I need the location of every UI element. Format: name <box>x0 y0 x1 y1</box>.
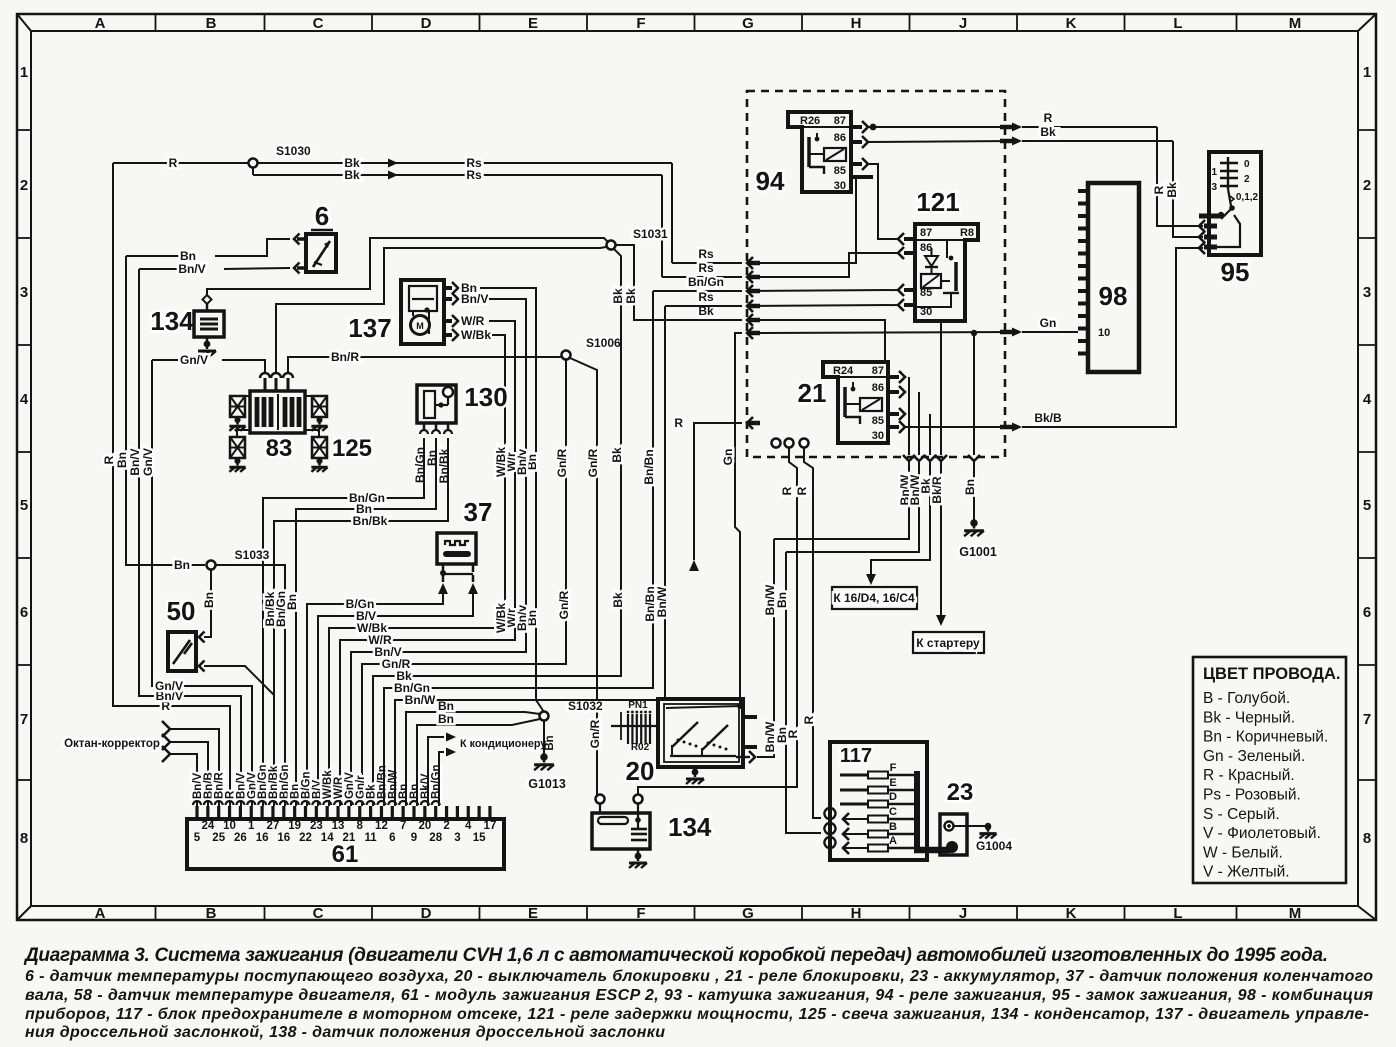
svg-text:G: G <box>742 905 754 922</box>
svg-text:4: 4 <box>465 820 472 832</box>
svg-text:0,1,2: 0,1,2 <box>1236 192 1259 203</box>
svg-text:B: B <box>889 821 897 833</box>
svg-text:E: E <box>889 777 896 789</box>
svg-text:87: 87 <box>834 115 846 127</box>
relay 21 pin 85 <box>888 408 905 420</box>
svg-text:R: R <box>780 486 794 495</box>
wire Bn/Gn from S1033 to pin9 <box>216 565 288 806</box>
wire Bn/W vertical to pin19 <box>395 306 669 806</box>
svg-text:C: C <box>313 15 324 32</box>
wire R left vertical <box>102 163 230 806</box>
svg-text:Ps - Розовый.: Ps - Розовый. <box>1203 787 1301 804</box>
svg-text:2: 2 <box>20 177 28 194</box>
svg-text:Gn: Gn <box>721 449 735 466</box>
svg-text:E: E <box>528 15 538 32</box>
svg-text:6 - датчик температуры поступа: 6 - датчик температуры поступающего возд… <box>25 968 1373 985</box>
svg-text:Bn: Bn <box>438 712 454 726</box>
wire Bn/V left vertical <box>128 269 241 806</box>
svg-text:85: 85 <box>872 415 884 427</box>
svg-text:A: A <box>95 905 106 922</box>
switch 20 right stubs <box>743 717 757 747</box>
svg-text:B: B <box>206 905 217 922</box>
svg-text:8: 8 <box>20 830 28 847</box>
wire Bk/Rs upper <box>258 156 760 269</box>
svg-text:3: 3 <box>1211 182 1217 193</box>
svg-text:86: 86 <box>920 242 932 254</box>
svg-text:6: 6 <box>20 604 28 621</box>
svg-text:W/Bk: W/Bk <box>357 621 387 635</box>
svg-text:R: R <box>674 416 683 430</box>
svg-text:3: 3 <box>454 832 460 844</box>
svg-text:R: R <box>1044 111 1053 125</box>
connector circles under relay box <box>772 439 809 448</box>
svg-text:Bn/R: Bn/R <box>331 350 359 364</box>
node S1031 <box>607 227 669 250</box>
svg-text:R: R <box>802 715 816 724</box>
wire from sensor 50 lower pin <box>199 661 274 696</box>
wire Bn from 130 pin2 <box>285 444 436 806</box>
svg-text:Gn/R: Gn/R <box>557 590 571 619</box>
svg-text:R - Красный.: R - Красный. <box>1203 767 1295 784</box>
svg-text:A: A <box>889 835 897 847</box>
svg-text:Bn: Bn <box>775 727 789 743</box>
svg-text:R26: R26 <box>800 115 820 127</box>
svg-text:Bn/V: Bn/V <box>128 448 142 475</box>
svg-text:125: 125 <box>332 435 372 462</box>
wire B/V from 37 <box>318 592 473 806</box>
wire R exit from relay 94 <box>868 111 1157 132</box>
svg-text:S1032: S1032 <box>568 699 603 713</box>
svg-text:Октан-корректор: Октан-корректор <box>64 738 160 750</box>
137 pin W/Bk <box>329 328 508 806</box>
wire Bn/Bn vertical to pin18 <box>384 291 657 806</box>
svg-text:Gn/R: Gn/R <box>586 448 600 477</box>
svg-text:4: 4 <box>20 391 29 408</box>
wire Gn/R from S1006 to pin 8 row <box>362 360 571 806</box>
wire Rs entry to relay121 30 <box>665 290 899 312</box>
ground G1013 <box>528 753 566 791</box>
wire Bk to lock 95 <box>1165 141 1205 243</box>
svg-text:95: 95 <box>1221 257 1250 287</box>
svg-text:Bk: Bk <box>624 288 638 304</box>
svg-text:26: 26 <box>234 832 247 844</box>
svg-text:S - Серый.: S - Серый. <box>1203 806 1280 823</box>
svg-text:5: 5 <box>1363 497 1371 514</box>
svg-text:28: 28 <box>429 832 442 844</box>
relay 21 pin 86 <box>888 386 905 398</box>
svg-text:94: 94 <box>756 166 785 196</box>
spark plugs 125 <box>229 396 372 472</box>
relay 121 pin 87 <box>898 233 915 245</box>
svg-text:23: 23 <box>310 820 323 832</box>
svg-text:L: L <box>1173 905 1182 922</box>
relay 21 pin 30 <box>888 421 905 433</box>
svg-text:Bn/Bk: Bn/Bk <box>353 514 388 528</box>
svg-text:Bn/W: Bn/W <box>655 586 669 617</box>
wire Gn/V left vertical <box>141 360 252 806</box>
svg-text:6: 6 <box>1363 604 1371 621</box>
svg-text:7: 7 <box>400 820 406 832</box>
wire Rs entry to relay121 86 <box>747 253 899 277</box>
61 pins <box>193 801 496 844</box>
svg-text:Bn - Коричневый.: Bn - Коричневый. <box>1203 729 1328 746</box>
svg-text:50: 50 <box>167 596 196 626</box>
svg-text:Bn/Gn: Bn/Gn <box>274 591 288 627</box>
svg-text:6: 6 <box>389 832 395 844</box>
capacitor 134b <box>592 795 712 869</box>
svg-text:B: B <box>206 15 217 32</box>
svg-text:11: 11 <box>365 832 378 844</box>
svg-text:К кондиционеру: К кондиционеру <box>460 738 546 750</box>
svg-text:Bn/W: Bn/W <box>405 693 436 707</box>
svg-text:J: J <box>959 15 967 32</box>
svg-text:24: 24 <box>201 820 214 832</box>
dashed relay box <box>747 91 1005 457</box>
svg-text:D: D <box>421 15 432 32</box>
svg-text:Bk: Bk <box>611 288 625 304</box>
svg-text:Bn/Gn: Bn/Gn <box>431 765 443 800</box>
wire Gn through to cluster 98 <box>721 316 1078 704</box>
wire Bk from coil pin2 to S1031 <box>276 247 606 374</box>
svg-text:20: 20 <box>626 756 655 786</box>
svg-text:K: K <box>1066 905 1077 922</box>
137 pin Bn <box>444 281 544 712</box>
svg-text:1: 1 <box>1363 64 1371 81</box>
svg-text:F: F <box>636 905 645 922</box>
svg-text:22: 22 <box>299 832 312 844</box>
svg-text:27: 27 <box>267 820 280 832</box>
svg-text:130: 130 <box>464 382 507 412</box>
svg-text:G1013: G1013 <box>528 777 566 791</box>
svg-text:R24: R24 <box>833 365 854 377</box>
svg-text:F: F <box>890 762 897 774</box>
relay 121 pin 86 <box>898 247 915 259</box>
svg-text:1: 1 <box>1211 167 1217 178</box>
svg-text:K: K <box>1066 15 1077 32</box>
wire Bk entry to relay 21 <box>747 320 885 362</box>
battery 23 <box>940 779 985 855</box>
node S1030 <box>249 144 312 175</box>
svg-text:13: 13 <box>332 820 345 832</box>
wire Bn to fuse box row B <box>775 552 821 833</box>
wire Bk drop to fuse link <box>866 414 936 585</box>
svg-text:85: 85 <box>834 165 846 177</box>
wire Bk/R drop to starter <box>930 321 947 626</box>
wire Bk/V pin22 to air conditioner <box>428 733 456 807</box>
sensor 6 (air temperature) <box>306 201 336 272</box>
svg-text:9: 9 <box>411 832 417 844</box>
svg-text:37: 37 <box>464 497 493 527</box>
switch 20 (lock switch) <box>626 699 743 786</box>
svg-text:10: 10 <box>1098 327 1110 339</box>
svg-text:H: H <box>851 905 862 922</box>
svg-text:Bn: Bn <box>775 592 789 608</box>
svg-text:вала, 58 - датчик температуре: вала, 58 - датчик температуре двигателя,… <box>25 987 1374 1004</box>
svg-text:ЦВЕТ ПРОВОДА.: ЦВЕТ ПРОВОДА. <box>1203 665 1341 683</box>
svg-text:7: 7 <box>20 711 28 728</box>
svg-text:134: 134 <box>668 812 712 842</box>
wire Bn/Gn from 130 pin1 <box>263 444 424 806</box>
svg-text:V - Фиолетовый.: V - Фиолетовый. <box>1203 825 1321 842</box>
wire R from circle to fuse box row C <box>795 448 821 818</box>
137 pin Bn/V <box>351 292 529 806</box>
switch 20 output arrow <box>736 751 774 763</box>
wire Bk/B exit to ignition lock <box>904 242 1205 432</box>
svg-text:PN1: PN1 <box>628 700 648 711</box>
svg-text:R: R <box>169 156 178 170</box>
svg-text:1: 1 <box>248 820 255 832</box>
wire Bn drop to ground G1001 <box>963 330 980 521</box>
svg-text:Bn/V: Bn/V <box>461 292 488 306</box>
svg-text:Bk: Bk <box>344 168 360 182</box>
relay 21 (lock relay) <box>798 362 888 443</box>
svg-text:Bn: Bn <box>180 249 196 263</box>
svg-text:Bk: Bk <box>1040 125 1056 139</box>
node S1006 <box>562 336 622 360</box>
module 61 (ESCP 2 ignition module) <box>187 819 504 869</box>
wire B/Gn from 37 <box>307 592 443 806</box>
sensor 50 <box>167 596 196 671</box>
motor 137 (throttle control) <box>348 280 444 344</box>
svg-text:2: 2 <box>1244 174 1250 185</box>
relay 94 pin 86 <box>851 136 868 148</box>
fuse box 117 <box>824 742 950 860</box>
label box K 16/D4, 16/C4 <box>832 587 917 609</box>
row numbers <box>17 64 1376 847</box>
svg-text:2: 2 <box>443 820 449 832</box>
svg-text:R8: R8 <box>960 227 974 239</box>
svg-text:Bk: Bk <box>610 447 624 463</box>
svg-text:Bn/Gn: Bn/Gn <box>688 275 724 289</box>
wire R entry lower left <box>674 416 760 571</box>
wire Bn pin21 to S1032 <box>417 712 540 806</box>
svg-text:Bk/B: Bk/B <box>1034 411 1062 425</box>
svg-text:Gn/V: Gn/V <box>155 679 183 693</box>
svg-text:Bn/Bn: Bn/Bn <box>642 449 656 484</box>
svg-text:Bn: Bn <box>115 452 129 468</box>
svg-text:V - Желтый.: V - Желтый. <box>1203 864 1290 881</box>
svg-text:G1004: G1004 <box>976 839 1012 853</box>
svg-text:Диаграмма 3. Система зажигания: Диаграмма 3. Система зажигания (двигател… <box>23 945 1328 966</box>
svg-text:8: 8 <box>357 820 364 832</box>
wire relay94 85 to relay 121 87 <box>868 164 899 239</box>
svg-text:S1031: S1031 <box>633 227 668 241</box>
svg-text:7: 7 <box>1363 711 1371 728</box>
svg-text:C: C <box>889 806 897 818</box>
svg-text:87: 87 <box>872 365 884 377</box>
svg-text:5: 5 <box>20 497 28 514</box>
svg-text:B - Голубой.: B - Голубой. <box>1203 690 1290 707</box>
svg-text:R: R <box>1152 185 1166 194</box>
svg-text:Rs: Rs <box>698 290 714 304</box>
relay 94 pin 85 <box>851 158 868 170</box>
svg-text:137: 137 <box>348 313 391 343</box>
svg-text:S1030: S1030 <box>276 144 311 158</box>
svg-text:21: 21 <box>798 378 827 408</box>
relay 121 pin 30 <box>898 299 915 311</box>
svg-text:S1033: S1033 <box>235 548 270 562</box>
svg-text:5: 5 <box>194 832 201 844</box>
svg-text:1: 1 <box>20 64 28 81</box>
wire R from circle to capacitor 134b <box>638 448 800 795</box>
137 pin W/R <box>340 314 518 806</box>
svg-text:J: J <box>959 905 967 922</box>
svg-text:ния дроссельной заслонкой, 138: ния дроссельной заслонкой, 138 - датчик … <box>25 1024 665 1041</box>
column letters top <box>95 14 1302 922</box>
svg-text:134: 134 <box>150 306 194 336</box>
svg-text:D: D <box>889 791 897 803</box>
svg-text:R: R <box>795 486 809 495</box>
ignition coil 83 <box>250 373 305 462</box>
wire Bk from capacitor 134 to S1031 <box>207 238 609 295</box>
svg-text:Bn/V: Bn/V <box>178 262 205 276</box>
svg-text:10: 10 <box>223 820 236 832</box>
wire Bn from S1032 to ground G1013 <box>544 721 556 755</box>
node S1032 <box>540 699 604 721</box>
svg-text:61: 61 <box>332 841 359 868</box>
node S1033 <box>207 548 270 570</box>
svg-text:приборов, 117 - блок предохран: приборов, 117 - блок предохранителе в мо… <box>25 1006 1369 1023</box>
wire Bn/W drop 1 <box>774 377 915 539</box>
svg-text:W/Bk: W/Bk <box>494 603 508 633</box>
svg-text:W/Bk: W/Bk <box>461 328 491 342</box>
capacitor 134 <box>150 295 224 356</box>
svg-text:Bn: Bn <box>202 592 216 608</box>
wire R to lock 95 <box>1152 127 1205 232</box>
octane corrector label <box>64 738 160 750</box>
svg-text:Bk/R: Bk/R <box>930 476 944 504</box>
svg-text:15: 15 <box>473 832 486 844</box>
wire Gn/V to coil pin1 <box>152 353 265 374</box>
svg-text:W/R: W/R <box>368 633 392 647</box>
svg-text:30: 30 <box>872 430 884 442</box>
svg-text:8: 8 <box>1363 830 1371 847</box>
svg-text:W/R: W/R <box>461 314 485 328</box>
sensor 37 (crankshaft position) <box>437 497 492 594</box>
svg-text:Gn/R: Gn/R <box>555 448 569 477</box>
wire Bn from S1033 to sensor 50 <box>199 570 216 643</box>
svg-text:L: L <box>1173 15 1182 32</box>
svg-text:E: E <box>528 905 538 922</box>
svg-text:121: 121 <box>916 187 959 217</box>
relay 21 pin 87 <box>888 371 905 383</box>
svg-text:Bn: Bn <box>544 735 556 750</box>
61 pin wire labels <box>192 765 443 800</box>
svg-text:30: 30 <box>834 180 846 192</box>
label K conditioner <box>460 738 546 750</box>
svg-text:A: A <box>95 15 106 32</box>
svg-text:12: 12 <box>375 820 388 832</box>
svg-text:Bk - Черный.: Bk - Черный. <box>1203 709 1295 726</box>
caption <box>23 945 1374 1041</box>
wire Bk from S1031 down to pin17 <box>373 249 625 806</box>
svg-text:4: 4 <box>1363 391 1372 408</box>
svg-text:86: 86 <box>872 382 884 394</box>
wire Bn to sensor 6 <box>126 234 306 264</box>
svg-text:C: C <box>313 905 324 922</box>
svg-text:R: R <box>102 455 116 464</box>
relay 94 (ignition relay) <box>756 112 851 196</box>
wire R to S1030 <box>113 156 253 170</box>
ground G1004 <box>976 823 1012 853</box>
svg-text:Gn/R: Gn/R <box>588 719 602 748</box>
svg-text:16: 16 <box>277 832 290 844</box>
wire Bn/R from coil pin3 to S1006 <box>288 350 566 374</box>
svg-text:G: G <box>742 15 754 32</box>
svg-text:0: 0 <box>1244 159 1250 170</box>
svg-text:25: 25 <box>212 832 225 844</box>
svg-text:Gn - Зеленый.: Gn - Зеленый. <box>1203 748 1305 765</box>
svg-text:Bn: Bn <box>438 699 454 713</box>
svg-text:W/Bk: W/Bk <box>494 447 508 477</box>
svg-text:6: 6 <box>315 201 329 231</box>
svg-text:W - Белый.: W - Белый. <box>1203 844 1283 861</box>
svg-text:Bk: Bk <box>1165 182 1179 198</box>
svg-text:87: 87 <box>920 227 932 239</box>
svg-text:H: H <box>851 15 862 32</box>
wire Bn/Gn entry to relay121 85 <box>653 275 899 297</box>
relay 94 pin 87 <box>851 121 868 133</box>
svg-text:M: M <box>1289 905 1302 922</box>
svg-text:83: 83 <box>266 435 293 462</box>
svg-text:3: 3 <box>1363 284 1371 301</box>
svg-text:Bn: Bn <box>174 558 190 572</box>
svg-text:23: 23 <box>947 779 974 806</box>
svg-text:16: 16 <box>256 832 269 844</box>
wire Gn/R from S1006 to capacitor 134b <box>570 358 602 795</box>
wire Bn/W drop 2 <box>786 392 925 552</box>
wire Bk/Rs lower <box>253 168 760 283</box>
svg-text:D: D <box>421 905 432 922</box>
wire Bn/Gn pin23 to air conditioner <box>439 748 456 807</box>
svg-text:S1006: S1006 <box>586 336 621 350</box>
svg-text:F: F <box>636 15 645 32</box>
label box K starter <box>913 632 984 653</box>
wire Bk exit from relay 94 <box>868 125 1173 146</box>
svg-text:Rs: Rs <box>698 261 714 275</box>
svg-text:Bn: Bn <box>963 479 977 495</box>
instrument cluster 98 <box>1078 183 1139 372</box>
wire Bn/V to sensor 6 <box>139 262 306 276</box>
wire Bn/Bk from 130 pin3 <box>263 444 448 806</box>
svg-text:Bk: Bk <box>611 592 625 608</box>
svg-text:Gn/V: Gn/V <box>141 448 155 476</box>
svg-text:G1001: G1001 <box>959 545 997 559</box>
octane corrector wires <box>162 721 219 806</box>
svg-text:К стартеру: К стартеру <box>916 636 980 650</box>
svg-text:B/V: B/V <box>356 609 376 623</box>
ignition lock 95 <box>1199 152 1261 287</box>
svg-text:Rs: Rs <box>466 168 482 182</box>
relay 94 pin 30 <box>851 175 873 179</box>
svg-text:M: M <box>416 321 424 331</box>
svg-text:98: 98 <box>1099 281 1128 311</box>
ground of switch 20 <box>686 769 704 784</box>
svg-text:14: 14 <box>321 832 334 844</box>
component 130 <box>413 382 508 483</box>
svg-text:17: 17 <box>484 820 497 832</box>
svg-text:21: 21 <box>343 832 356 844</box>
selector pattern PN1/R02 <box>611 700 658 753</box>
relay 121 (power hold relay) <box>915 187 978 321</box>
svg-text:117: 117 <box>840 745 872 767</box>
wire Bk from S1031 into relay box <box>615 245 760 326</box>
svg-text:19: 19 <box>288 820 301 832</box>
wire Bn/W to switch 20 output <box>758 539 777 757</box>
svg-text:3: 3 <box>20 284 28 301</box>
relay 121 pin 85 <box>898 284 915 296</box>
svg-text:Gn: Gn <box>1040 316 1057 330</box>
